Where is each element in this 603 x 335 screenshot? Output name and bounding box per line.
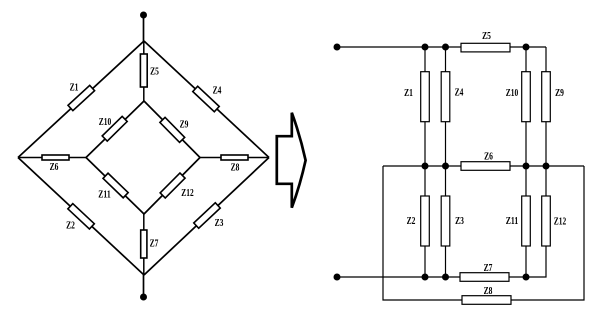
svg-text:Z4: Z4 [455,87,464,99]
wire Z10 column [525,47,527,166]
svg-text:Z9: Z9 [180,119,189,131]
svg-text:Z11: Z11 [98,189,110,201]
wire inner bottom-right edge [144,158,200,215]
wire inner top-right edge [144,101,200,158]
junction dot row1 Z10 [523,44,530,51]
terminal dot upper left [334,44,341,51]
resistor Z6 [461,162,510,171]
junction dot row2 Z4/Z3 [442,163,449,170]
wire outer bottom-left edge [18,158,144,276]
wire inner right to outer right vertex [200,157,269,159]
resistor Z11 [103,173,128,198]
svg-text:Z2: Z2 [66,220,75,232]
wire Z12 column [526,166,546,277]
resistor Z6 [42,155,69,160]
wire Z11 column [525,166,527,277]
resistor Z1 [421,72,430,122]
resistor Z12 [542,196,551,246]
wire Z9 column [545,47,547,166]
wire top row left [337,46,461,48]
resistor Z9 [160,117,185,142]
svg-text:Z1: Z1 [70,82,79,94]
junction dot row1 Z4 [442,44,449,51]
wire row2 left [383,165,461,167]
wire Z2 column [424,166,426,277]
junction dot row3 Z11 [523,274,530,281]
svg-text:Z6: Z6 [50,161,59,173]
svg-text:Z6: Z6 [484,151,493,163]
wire apex to inner top node [143,41,145,101]
wire outer bottom-right edge [144,158,269,276]
wire inner top-left edge [86,101,144,158]
resistor Z2 [68,204,94,229]
resistor Z4 [193,86,219,111]
svg-text:Z4: Z4 [213,85,222,97]
svg-text:Z8: Z8 [231,162,240,174]
wire Z4 column [445,47,447,166]
resistor Z7 [460,273,509,282]
svg-text:Z2: Z2 [407,215,416,227]
wire inner bottom to outer bottom [143,214,145,275]
resistor Z11 [522,196,531,246]
wire top terminal to apex [143,15,145,41]
svg-text:Z9: Z9 [555,87,564,99]
resistor Z9 [542,72,551,122]
resistor Z3 [441,196,450,246]
resistor Z1 [68,85,95,110]
svg-text:Z1: Z1 [404,87,413,99]
resistor Z10 [102,116,127,141]
wire right outer branch [511,166,584,300]
junction dot row2 Z9/Z12 [543,163,550,170]
resistor Z10 [522,72,531,122]
junction dot row2 Z1/Z2 [422,163,429,170]
resistor Z2 [421,196,430,246]
svg-text:Z7: Z7 [150,238,159,250]
svg-text:Z12: Z12 [181,187,194,199]
resistor Z7 [141,230,147,258]
wire row3 right [509,276,526,278]
resistor Z8 [221,155,248,160]
terminal dot top [140,12,147,19]
wire row2 right [510,165,584,167]
resistor Z8 [462,296,511,305]
wire top row right [510,46,546,48]
svg-text:Z7: Z7 [484,262,493,274]
junction dot row2 Z10/Z11 [523,163,530,170]
wire Z1 column [424,47,426,166]
wire outer left vertex to inner left [18,157,86,159]
resistor Z5 [140,54,147,87]
junction dot row3 Z3 [442,274,449,281]
terminal dot lower left [334,274,341,281]
junction dot row3 terminal [422,274,429,281]
svg-text:Z10: Z10 [506,87,519,99]
resistor Z3 [194,203,220,228]
svg-text:Z5: Z5 [482,30,491,42]
resistor Z5 [461,43,510,52]
wire row3 left [337,276,460,278]
svg-text:Z5: Z5 [150,66,159,78]
svg-text:Z3: Z3 [215,217,224,229]
resistor Z4 [441,72,450,122]
svg-text:Z3: Z3 [455,215,464,227]
terminal dot bottom [140,294,147,301]
svg-text:Z10: Z10 [99,116,112,128]
svg-text:Z8: Z8 [484,285,493,297]
wire inner bottom-left edge [86,158,144,215]
svg-text:Z11: Z11 [506,215,518,227]
wire outer bottom to bottom terminal [143,275,145,297]
svg-text:Z12: Z12 [554,216,567,228]
block arrow [277,113,306,208]
wire Z3 column [445,166,447,277]
wire left outer branch [383,166,462,300]
wire outer top-left edge [18,41,144,158]
resistor Z12 [160,173,185,198]
wire outer top-right edge [144,41,269,158]
junction dot row1 Z1 [422,44,429,51]
